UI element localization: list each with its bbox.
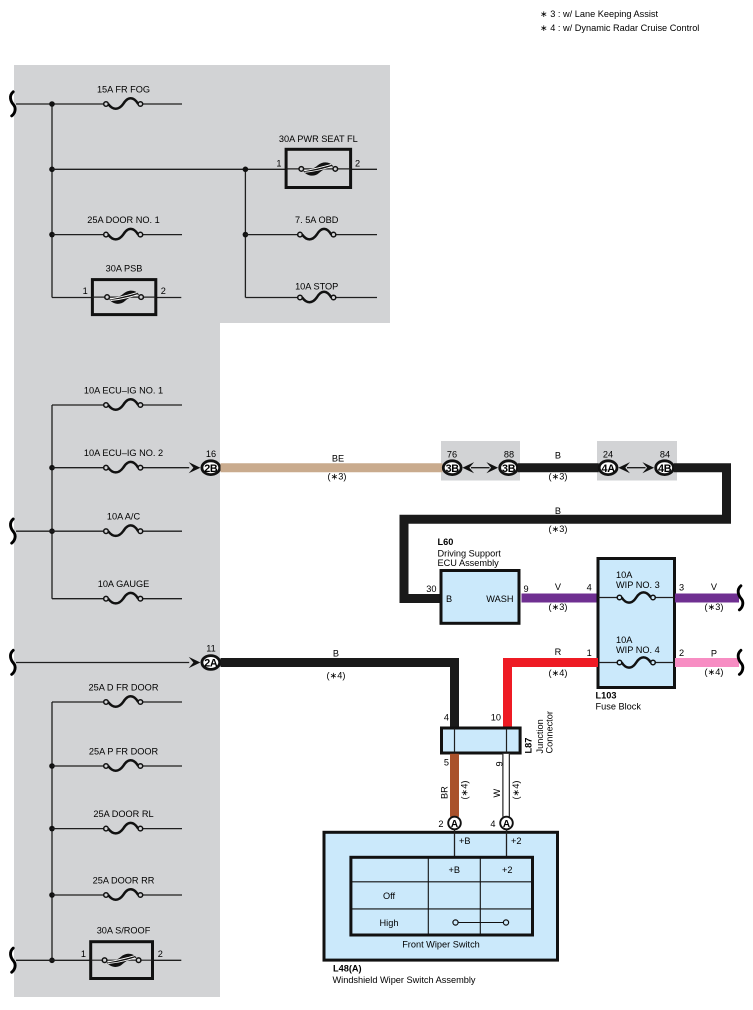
svg-text:16: 16 — [206, 449, 216, 459]
svg-text:L60: L60 — [438, 537, 454, 547]
svg-text:(∗4): (∗4) — [511, 781, 521, 800]
junction dot S/ROOF feed/bus — [49, 958, 55, 964]
svg-text:(∗4): (∗4) — [460, 781, 470, 800]
wire row 25A P FR DOOR — [52, 765, 104, 767]
wire +B lead into switch — [454, 829, 456, 856]
svg-text:25A DOOR NO. 1: 25A DOOR NO. 1 — [87, 215, 160, 225]
wire B black (2A to L87) — [221, 663, 455, 728]
fuse 25A DOOR RL — [93, 809, 153, 833]
fuse 30A PWR SEAT FL (box type) — [276, 134, 360, 188]
wire BE beige (2B to 3B) — [221, 463, 443, 472]
vertical bus (lower doors) — [51, 702, 53, 960]
svg-text:Connector: Connector — [545, 711, 555, 753]
svg-text:BE: BE — [332, 453, 344, 463]
svg-text:2: 2 — [679, 648, 684, 658]
fuse 25A D FR DOOR — [89, 683, 159, 707]
fuse 10A STOP — [295, 281, 338, 302]
svg-text:L103: L103 — [596, 691, 617, 701]
ECU box L60 — [441, 571, 519, 624]
junction dot A/C feed/bus — [49, 528, 55, 534]
wire +2 lead into switch — [506, 829, 508, 856]
svg-text:Driving Support: Driving Support — [438, 548, 502, 558]
junction dot row2/bus1 — [49, 167, 55, 173]
svg-text:(∗3): (∗3) — [549, 602, 568, 612]
wire row 10A A/C — [16, 530, 104, 532]
fuse 25A P FR DOOR — [89, 747, 159, 771]
svg-text:(∗3): (∗3) — [549, 471, 568, 481]
svg-text:10A A/C: 10A A/C — [107, 512, 141, 522]
svg-text:B: B — [555, 506, 561, 516]
svg-text:11: 11 — [206, 644, 216, 654]
svg-text:(∗3): (∗3) — [328, 471, 347, 481]
arrow into connector 2A — [189, 657, 201, 668]
wire row2 to PWR SEAT box — [52, 168, 286, 170]
svg-text:3B: 3B — [446, 463, 460, 475]
wire B black (3B to 4A) — [518, 463, 599, 472]
vertical bus 1 (top) — [51, 104, 53, 298]
svg-text:2: 2 — [438, 819, 443, 829]
svg-text:WIP NO. 4: WIP NO. 4 — [616, 645, 660, 655]
svg-text:30A PWR SEAT FL: 30A PWR SEAT FL — [279, 134, 358, 144]
wire row4 30A PSB — [52, 297, 91, 299]
svg-text:R: R — [555, 647, 562, 657]
wire row to connector 2A — [16, 662, 189, 664]
fuse 10A ECU-IG NO. 1 — [84, 386, 163, 410]
svg-text:4: 4 — [444, 713, 449, 723]
wire BR brown (L87 pin 5 to terminal A) — [450, 754, 459, 817]
svg-text:Fuse Block: Fuse Block — [596, 702, 642, 712]
junction dot row3/bus2 — [243, 232, 249, 238]
fuse block L103 — [598, 559, 675, 688]
svg-text:25A DOOR RL: 25A DOOR RL — [93, 809, 153, 819]
svg-text:84: 84 — [660, 450, 670, 460]
fuse 15A FR FOG — [97, 85, 150, 109]
svg-text:76: 76 — [447, 450, 457, 460]
wire break squiggle top-left feed — [10, 92, 15, 116]
svg-text:WASH: WASH — [486, 594, 513, 604]
svg-text:2A: 2A — [204, 658, 218, 670]
svg-text:(∗4): (∗4) — [705, 667, 724, 677]
svg-text:L48(A): L48(A) — [333, 964, 362, 974]
svg-text:Windshield Wiper Switch Assemb: Windshield Wiper Switch Assembly — [333, 975, 476, 985]
svg-text:(∗3): (∗3) — [705, 602, 724, 612]
svg-text:V: V — [555, 582, 562, 592]
svg-text:L87: L87 — [524, 738, 534, 754]
fuse 10A WIP NO. 4 — [616, 635, 660, 668]
wire row 25A D FR DOOR — [52, 701, 104, 703]
svg-text:10A STOP: 10A STOP — [295, 281, 338, 291]
wire break squiggle 2A feed — [10, 650, 15, 674]
svg-text:ECU Assembly: ECU Assembly — [438, 558, 500, 568]
gray block behind 4A-4B connector pair — [597, 441, 677, 481]
fuse 10A WIP NO. 3 — [616, 570, 660, 602]
svg-text:25A DOOR RR: 25A DOOR RR — [93, 876, 155, 886]
svg-text:Junction: Junction — [535, 719, 545, 753]
fuse 10A GAUGE — [98, 579, 150, 603]
svg-text:4B: 4B — [658, 463, 672, 475]
wire R red (L103 pin 1 to L87) — [508, 663, 599, 728]
svg-text:10A ECU–IG NO. 2: 10A ECU–IG NO. 2 — [84, 448, 163, 458]
svg-text:(∗4): (∗4) — [327, 670, 346, 680]
svg-text:+2: +2 — [502, 865, 512, 875]
svg-text:10: 10 — [491, 713, 501, 723]
fuse 7. 5A OBD — [295, 215, 339, 239]
fuse 25A DOOR NO. 1 — [87, 215, 160, 239]
svg-text:24: 24 — [603, 450, 613, 460]
wire row 30A S/ROOF — [16, 959, 90, 961]
fuse 30A PSB (box type) — [83, 264, 166, 315]
wire row 25A DOOR RL — [52, 828, 104, 830]
svg-text:+B: +B — [449, 865, 461, 875]
svg-text:A: A — [503, 819, 510, 830]
wiper switch assembly box L48(A) — [324, 832, 558, 960]
wire break squiggle V end — [738, 586, 743, 610]
svg-text:2: 2 — [158, 949, 163, 959]
wire row2 after PWR SEAT box — [351, 168, 377, 170]
arrow pair between 4A and 4B — [618, 462, 654, 473]
svg-text:2: 2 — [161, 286, 166, 296]
switch table — [351, 857, 533, 935]
fuse 25A DOOR RR — [93, 876, 155, 900]
wire row 15A FR FOG — [16, 103, 104, 105]
vertical bus 2 (right, top) — [244, 169, 246, 297]
wire row4 10A STOP — [245, 297, 297, 299]
svg-text:10A ECU–IG NO. 1: 10A ECU–IG NO. 1 — [84, 386, 163, 396]
wire break squiggle A/C feed — [10, 519, 15, 543]
junction dot row3/bus1 — [49, 232, 55, 238]
connector oval 4A — [599, 461, 617, 475]
svg-text:1: 1 — [587, 648, 592, 658]
svg-text:30A S/ROOF: 30A S/ROOF — [97, 925, 151, 935]
junction dot P FR DOOR/bus — [49, 763, 55, 769]
svg-text:88: 88 — [504, 450, 514, 460]
wire V purple (L60 to L103) — [522, 594, 599, 603]
junction dot DOOR RR/bus — [49, 892, 55, 898]
svg-text:15A FR FOG: 15A FR FOG — [97, 85, 150, 95]
svg-text:B: B — [333, 649, 339, 659]
wire row3 25A DOOR NO.1 — [52, 234, 104, 236]
svg-text:P: P — [711, 648, 717, 658]
terminal A right — [500, 817, 513, 830]
junction dot row1/bus1 — [49, 101, 55, 107]
vertical bus (mid) — [51, 405, 53, 599]
svg-text:BR: BR — [439, 786, 449, 799]
switch contact high row — [453, 920, 509, 925]
arrow pair between 3B ovals — [462, 462, 498, 473]
fuse 10A ECU-IG NO. 2 — [84, 448, 163, 472]
svg-text:Off: Off — [383, 891, 396, 901]
svg-text:4: 4 — [587, 583, 592, 593]
junction dot row2/bus2 — [243, 167, 249, 173]
arrow into connector 2B — [189, 462, 201, 473]
svg-text:4: 4 — [490, 819, 495, 829]
svg-text:+2: +2 — [511, 836, 521, 846]
fuse 10A A/C — [104, 512, 143, 536]
svg-text:3B: 3B — [502, 463, 516, 475]
gray block behind 3B-3B connector pair — [441, 441, 520, 481]
wire row 10A GAUGE — [52, 598, 104, 600]
svg-text:30A PSB: 30A PSB — [106, 264, 143, 274]
svg-text:High: High — [380, 918, 399, 928]
connector oval 2A — [202, 656, 220, 670]
svg-text:10A GAUGE: 10A GAUGE — [98, 579, 150, 589]
svg-text:10A: 10A — [616, 635, 633, 645]
svg-text:5: 5 — [444, 758, 449, 768]
wire row 25A DOOR RR — [52, 894, 104, 896]
wire row3 7.5A OBD — [245, 234, 297, 236]
svg-text:B: B — [555, 451, 561, 461]
svg-text:1: 1 — [83, 286, 88, 296]
junction connector L87 — [442, 728, 521, 753]
svg-text:2: 2 — [355, 158, 360, 168]
wire row 10A ECU-IG NO.2 — [52, 467, 104, 469]
connector oval 2B — [202, 461, 220, 475]
svg-text:25A P FR DOOR: 25A P FR DOOR — [89, 747, 159, 757]
svg-text:(∗4): (∗4) — [549, 668, 568, 678]
svg-text:WIP NO. 3: WIP NO. 3 — [616, 580, 660, 590]
connector oval 4B — [656, 461, 674, 475]
wire W white (L87 pin 9 to terminal A) — [502, 754, 509, 817]
wire break squiggle P end — [738, 650, 743, 674]
svg-text:A: A — [451, 819, 458, 830]
svg-text:∗ 3 : w/ Lane Keeping Assist: ∗ 3 : w/ Lane Keeping Assist — [540, 9, 658, 19]
svg-text:1: 1 — [81, 949, 86, 959]
wire break squiggle S/ROOF feed — [10, 948, 15, 972]
svg-text:V: V — [711, 582, 718, 592]
wire row 10A ECU-IG NO.1 — [52, 404, 104, 406]
gray panel (fuse box area) — [14, 65, 390, 997]
svg-text:1: 1 — [276, 158, 281, 168]
svg-text:4A: 4A — [601, 463, 615, 475]
wire V purple (L103 pin 3 out) — [675, 594, 739, 603]
svg-text:30: 30 — [426, 584, 436, 594]
svg-text:(∗3): (∗3) — [549, 524, 568, 534]
svg-text:9: 9 — [524, 584, 529, 594]
junction dot DOOR RL/bus — [49, 826, 55, 832]
svg-text:B: B — [446, 594, 452, 604]
svg-text:Front Wiper Switch: Front Wiper Switch — [402, 939, 480, 949]
wire P pink (L103 pin 2 out) — [675, 658, 739, 667]
svg-text:2B: 2B — [204, 463, 218, 475]
svg-text:10A: 10A — [616, 570, 633, 580]
connector oval 3B right — [500, 461, 518, 475]
svg-text:∗ 4 : w/ Dynamic Radar Cruise: ∗ 4 : w/ Dynamic Radar Cruise Control — [540, 23, 699, 33]
svg-text:25A D FR DOOR: 25A D FR DOOR — [89, 683, 159, 693]
svg-text:7. 5A OBD: 7. 5A OBD — [295, 215, 339, 225]
wire B black (4B down-around to L60 pin 30) — [404, 468, 727, 599]
svg-text:3: 3 — [679, 583, 684, 593]
terminal A left — [448, 817, 461, 830]
connector oval 3B left — [443, 461, 461, 475]
svg-text:W: W — [492, 789, 502, 798]
fuse 30A S/ROOF (box type) — [81, 925, 163, 978]
svg-text:+B: +B — [459, 836, 471, 846]
junction dot ECU-IG2/bus — [49, 465, 55, 471]
